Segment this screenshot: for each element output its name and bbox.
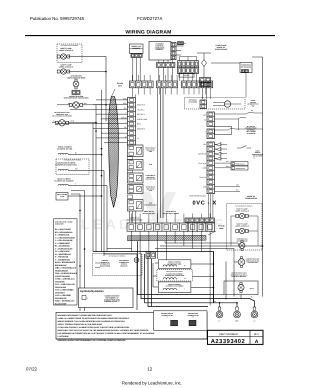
svg-text:FCWD2727A: FCWD2727A xyxy=(137,16,162,21)
door motor interlock dashed box xyxy=(185,98,246,110)
wire convection element FO xyxy=(68,170,104,172)
wires upper bank drops xyxy=(186,223,188,233)
wire mid vertical 2 xyxy=(162,88,164,218)
wire into connector P1 pin 2 xyxy=(93,104,128,106)
wire relay bank drop xyxy=(192,232,194,249)
safety lamp 2 xyxy=(61,69,66,74)
terminal NEU xyxy=(236,307,239,310)
UI board pin column xyxy=(171,43,176,60)
door switch symbol right xyxy=(237,147,241,149)
wire meat probe xyxy=(68,195,102,197)
relay bank row (lower) xyxy=(127,223,215,231)
diode D1 xyxy=(215,143,221,147)
wire relay bank drop xyxy=(139,232,141,255)
convection element optional dashed box xyxy=(56,159,89,175)
svg-text:DOOR LAMP: DOOR LAMP xyxy=(137,118,148,121)
svg-text:12: 12 xyxy=(147,367,152,372)
bake element coil xyxy=(58,184,68,185)
wire humidity pins down 2 xyxy=(136,58,138,82)
wire right vertical x226 xyxy=(225,262,227,300)
cooling fan motor xyxy=(73,81,79,87)
part number box xyxy=(208,330,264,344)
power wire run A xyxy=(107,248,132,250)
wire relay bank drop xyxy=(209,232,211,306)
power wire L-run 2 xyxy=(101,251,103,253)
convection fan 2 motor xyxy=(238,259,245,266)
svg-text:07/22: 07/22 xyxy=(26,367,38,372)
oven control connector column 3 xyxy=(207,142,215,194)
relay interconnect pins xyxy=(128,195,133,199)
wire FO right xyxy=(215,190,241,192)
thermal fuse diamond xyxy=(202,60,207,67)
meat probe jack box xyxy=(56,193,68,201)
wire ORG xyxy=(215,167,232,169)
thermostat box xyxy=(240,63,252,73)
svg-text:Rendered by LeadVenture, Inc.: Rendered by LeadVenture, Inc. xyxy=(122,381,182,386)
main harness connector column P1 xyxy=(128,98,136,146)
wire convection fan xyxy=(57,104,70,106)
wire relay bank drop xyxy=(183,232,185,247)
left bus wire A xyxy=(101,90,103,252)
wire humidity pins down 1 xyxy=(132,58,134,82)
wires bank top stubs 2 xyxy=(130,214,132,223)
svg-text:UI BOARDCARTE DECOMMANDEOVERLA: UI BOARDCARTE DECOMMANDEOVERLAY xyxy=(155,43,165,52)
wire elements left feeds xyxy=(153,275,157,277)
svg-text:L2: L2 xyxy=(254,320,256,323)
diode D3 xyxy=(215,152,221,156)
wire bake element V xyxy=(68,185,107,187)
nested wire 3 xyxy=(145,254,238,307)
wire door switch to edge xyxy=(254,112,263,114)
dlb switch box xyxy=(215,127,232,135)
symbols connector glyph xyxy=(82,296,86,300)
wire into connector P1 pin 3 xyxy=(70,108,128,110)
ferrite core pointer arrow xyxy=(112,89,116,97)
right optional dashed box xyxy=(227,204,263,251)
conv relay K3 xyxy=(128,173,144,183)
wire into connector P1 pin 4 xyxy=(96,113,128,115)
wire relay bank drop xyxy=(148,232,150,257)
power wire L-run 1 xyxy=(93,251,214,253)
wire safety lamp 2 to bus xyxy=(68,71,106,73)
svg-text:A23393402: A23393402 xyxy=(211,338,245,345)
wire element right ends xyxy=(191,263,214,265)
wire right lamps left bus xyxy=(231,215,237,217)
cooling fan connector xyxy=(72,91,80,95)
svg-text:REV.: REV. xyxy=(254,333,260,336)
svg-text:A4: A4 xyxy=(184,42,186,45)
humidity sensor pin row xyxy=(131,54,142,58)
svg-text:L1: L1 xyxy=(137,137,139,140)
svg-text:ORG PK 2: ORG PK 2 xyxy=(137,104,145,107)
connector TR3 (2-pin) xyxy=(200,78,211,83)
LeadVenture watermark V logo xyxy=(140,192,176,232)
wire to broil element 2 xyxy=(155,262,158,264)
wire relay bank drop xyxy=(130,232,132,252)
terminal L1 xyxy=(218,307,221,310)
UI board lower connector row xyxy=(157,63,175,68)
power wire run y254 xyxy=(104,254,137,310)
wire bus across 128 xyxy=(92,123,94,252)
wire into connector P1 pin 1 xyxy=(96,99,128,101)
main connector bank group 3 xyxy=(182,81,202,88)
svg-text:A: A xyxy=(255,339,259,345)
wire into connector P1 pin 9 xyxy=(96,137,128,139)
relay bank upper small row xyxy=(185,218,214,223)
nested wire 4 xyxy=(148,257,208,307)
broil relay K1 xyxy=(128,145,144,157)
feeder wire y246 xyxy=(160,245,263,247)
wire diamond up xyxy=(203,53,205,60)
broil element 2 box xyxy=(158,260,191,269)
wire relay bank drop xyxy=(157,232,159,260)
wire fan2 feed from 243 xyxy=(237,243,239,246)
bake relay K4 xyxy=(128,185,144,194)
humidity sensor box xyxy=(130,44,144,54)
right safety lamp 1 xyxy=(239,213,244,218)
nested wire 2 xyxy=(141,254,255,307)
wire interlock motor leads xyxy=(213,102,224,104)
wire into connector P1 pin 5 xyxy=(101,118,128,120)
svg-text:PART NUMBER: PART NUMBER xyxy=(219,333,238,336)
motor door lock 2 box xyxy=(224,281,258,295)
svg-text:V: V xyxy=(184,289,185,291)
diode D2 xyxy=(215,147,221,151)
connector strip TR2 xyxy=(178,67,199,73)
wire relay bank drop xyxy=(174,232,176,244)
connector strip TR1 xyxy=(178,61,199,67)
left bus wire C xyxy=(106,186,108,252)
symbols legend box xyxy=(79,288,134,308)
ground interlock dashed box xyxy=(93,254,143,276)
wire mid vertical 3 xyxy=(157,88,159,223)
wire strip feeds to bank verticals xyxy=(129,211,131,223)
UI board (user interface) box xyxy=(149,42,171,61)
dlb relay K5 xyxy=(128,200,144,212)
left bus wire D xyxy=(95,105,97,252)
svg-text:L1: L1 xyxy=(219,320,221,323)
wire diamond to TR3 xyxy=(203,67,205,78)
thermostat pair boxes xyxy=(231,162,248,166)
wire right bus vertical xyxy=(238,119,240,130)
wire thermostat down xyxy=(245,73,247,98)
wire into connector P1 pin 7 xyxy=(93,127,128,129)
convection element coil xyxy=(58,169,68,170)
connector sample 2 xyxy=(189,320,196,326)
svg-text:Symbols/Symboles: Symbols/Symboles xyxy=(80,290,104,293)
safety lamp 1 xyxy=(61,54,66,59)
interlock motor xyxy=(224,101,230,107)
wire lamp bus vertical xyxy=(105,57,107,122)
wire UI pins down xyxy=(158,68,160,81)
wires TR strips down to bank xyxy=(179,74,181,81)
wire door lock motor xyxy=(52,122,56,124)
nested wire 1 xyxy=(138,241,215,294)
bake element 2 box xyxy=(158,282,191,293)
svg-text:BROIL ELEMENTELEMENT DE GRIL: BROIL ELEMENTELEMENT DE GRIL xyxy=(57,146,73,151)
wire run y294.5 ext xyxy=(214,294,224,296)
right cooling fan motor xyxy=(239,243,245,249)
wire TR3 down xyxy=(201,87,203,100)
svg-text:BL: BL xyxy=(184,265,186,267)
wire mid vertical 1 xyxy=(160,88,162,218)
wire into connector P1 pin 6 xyxy=(56,123,128,125)
bank label BR MO xyxy=(179,73,194,77)
wire conv fan feed xyxy=(234,261,238,263)
optional box (safety lamps) dashed outline xyxy=(57,44,82,63)
wire dlb switch to edge xyxy=(235,128,263,130)
wire right lamps bus xyxy=(247,215,258,217)
wires bank top stubs xyxy=(131,75,133,81)
terminal L2 xyxy=(253,307,256,310)
wire interlock leads xyxy=(95,262,100,264)
door switch wire 2 xyxy=(215,118,239,120)
oven control right connector column 2 xyxy=(207,129,215,139)
svg-text:CONNECTOR WITHPIN NUMBER "X"CO: CONNECTOR WITHPIN NUMBER "X"CONNECTEUR A… xyxy=(104,295,121,304)
svg-text:WIRING DIAGRAM: WIRING DIAGRAM xyxy=(125,29,171,35)
right safety lamp 2 xyxy=(239,228,244,233)
wire humidity pins down 3 xyxy=(139,58,141,82)
door switch wire 1 xyxy=(215,113,247,115)
svg-text:0VC - X: 0VC - X xyxy=(193,201,217,207)
wire bank to strip left xyxy=(131,95,133,98)
door lock motor xyxy=(59,120,65,126)
broil element coil xyxy=(58,153,68,154)
wires bank bottom stubs xyxy=(131,88,133,95)
svg-text:ORG PK 2: ORG PK 2 xyxy=(137,127,145,130)
nested wire 5 xyxy=(151,259,153,307)
wire right vertical x213.5 xyxy=(213,252,215,303)
svg-text:BL: BL xyxy=(75,152,77,155)
feeder connector pair xyxy=(146,252,156,258)
relay K2 (CLN) xyxy=(128,160,144,171)
interlock connector pair xyxy=(200,100,207,108)
wire UI box bottom stubs xyxy=(158,60,160,63)
left bus wire B xyxy=(103,171,105,257)
svg-text:YEL PK 2: YEL PK 2 xyxy=(137,108,144,111)
wire door lock feed xyxy=(240,295,242,299)
svg-text:CONVECTION ELEMENTELEMENT DE C: CONVECTION ELEMENTELEMENT DE CONVECTION xyxy=(165,274,184,278)
warning box bottom rule xyxy=(56,338,207,340)
title underline rule xyxy=(25,35,275,37)
feeder wire y243 xyxy=(165,242,238,244)
pin A4 squares xyxy=(178,42,184,45)
feeder wire y248.5 xyxy=(155,248,234,250)
svg-text:RED PK 2: RED PK 2 xyxy=(137,113,145,116)
wire UI side xyxy=(176,45,184,47)
wire broil element BL xyxy=(68,154,101,156)
wire BAL xyxy=(215,162,232,164)
oven control right connector column xyxy=(207,112,215,126)
wires right column down to bank xyxy=(208,194,210,218)
convection element 2 dashed box xyxy=(157,270,192,281)
wire right vertical x234 xyxy=(233,265,235,297)
wire into connector P1 pin 8 xyxy=(101,132,128,134)
motor door lock 2 xyxy=(238,284,244,290)
wire safety lamp 1 to bus xyxy=(68,56,106,58)
wire relay bank drop xyxy=(165,232,167,260)
svg-text:BL SWITCHINTERRUPTEURDE VERROU: BL SWITCHINTERRUPTEURDE VERROUDE LA PORT… xyxy=(246,126,257,135)
diode D4 xyxy=(215,157,221,161)
main connector bank group 4 xyxy=(204,81,213,88)
warning instructions box xyxy=(56,312,207,339)
svg-text:BR MO: BR MO xyxy=(184,74,190,77)
wire relay bank drop xyxy=(200,232,202,252)
convection fan motor xyxy=(73,102,79,108)
wire bank right columns down xyxy=(209,95,211,100)
wire L1 stem feed xyxy=(219,303,221,307)
wires TR1 up stubs xyxy=(179,57,181,61)
ferrite hatch band xyxy=(128,235,207,241)
connector sample 1 xyxy=(171,320,178,326)
wire ground vertical x80 xyxy=(71,193,80,195)
ground interlock circle xyxy=(134,258,139,263)
main connector bank group 2 xyxy=(157,81,178,88)
wire ground vertical x84.5 xyxy=(71,190,85,192)
wire right edge vertical bus xyxy=(262,57,264,297)
main connector bank group 1 xyxy=(130,81,154,88)
connectors box xyxy=(154,311,208,331)
wire thermostat left xyxy=(211,62,240,64)
color code legend box xyxy=(54,219,78,305)
wire right edge top joint xyxy=(252,56,263,58)
svg-text:Publication No. 5995729745: Publication No. 5995729745 xyxy=(30,16,85,21)
wire YEL right xyxy=(215,186,241,188)
wire into connector P1 pin 10 xyxy=(104,142,128,144)
